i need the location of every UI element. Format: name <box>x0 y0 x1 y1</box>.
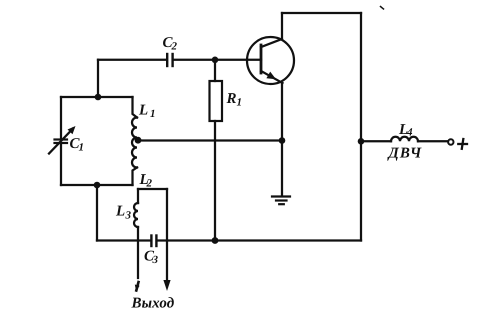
svg-text:2: 2 <box>171 41 178 53</box>
node: tank bottom junction dot <box>94 182 101 189</box>
node: base junction dot <box>212 57 219 64</box>
wire: L4 right lead <box>418 140 448 142</box>
capacitor C1 (variable): left wire upper segment <box>60 97 62 139</box>
svg-text:Выход: Выход <box>131 296 175 312</box>
wire: collector riser <box>281 13 283 39</box>
right output arrowhead <box>163 280 170 291</box>
capacitor C1: left wire lower segment <box>60 144 62 185</box>
transistor VT1 circle <box>247 37 294 84</box>
svg-text:L: L <box>115 204 125 220</box>
wire: emitter down to ground <box>281 83 283 196</box>
svg-text:1: 1 <box>237 97 243 109</box>
wire: R1 bottom lead <box>214 121 216 241</box>
tank loop: bottom wire <box>61 184 133 186</box>
label C2 <box>163 35 178 53</box>
label C1 <box>70 136 85 154</box>
label + supply terminal <box>458 139 467 149</box>
transistor VT1 base bar <box>260 45 263 73</box>
transistor VT1 emitter stroke <box>261 71 283 83</box>
wire: right output line <box>166 189 168 281</box>
capacitor C2 plates <box>166 54 168 66</box>
wire: C2 right lead to base <box>174 59 261 61</box>
ground symbol <box>272 197 290 205</box>
resistor R1 body <box>210 81 223 121</box>
capacitor C3 plates <box>150 236 152 247</box>
wire: C2 left lead <box>98 59 166 61</box>
wire: bottom rail left of C3 <box>97 239 150 241</box>
wire: riser from tank top to C2 lead <box>97 60 99 97</box>
label C3 <box>144 249 159 267</box>
svg-text:1: 1 <box>150 108 156 120</box>
svg-text:ДВЧ: ДВЧ <box>387 146 423 162</box>
wire: R1 top lead <box>214 60 216 81</box>
label L4 <box>398 122 413 139</box>
tank loop: top wire <box>61 96 133 98</box>
wire: right vertical rail <box>360 13 362 241</box>
wire: left riser to bottom rail <box>96 185 98 241</box>
svg-text:R: R <box>226 91 237 107</box>
inductor L4 winding <box>391 137 418 142</box>
coupling coil L2/L3: top wire <box>138 188 167 190</box>
inductor L3 winding <box>134 203 138 227</box>
wire: top supply rail <box>282 12 361 14</box>
inductor L3: upper lead <box>137 189 139 203</box>
node: L1 tap junction dot <box>135 137 142 144</box>
node: emitter junction dot <box>279 137 286 144</box>
svg-text:L: L <box>138 103 148 119</box>
node: L4 branch junction dot <box>358 138 365 145</box>
transistor VT1 collector stroke <box>261 39 282 47</box>
svg-text:3: 3 <box>152 254 159 266</box>
wire: L4 left lead <box>361 140 391 142</box>
inductor L1 winding <box>132 118 137 168</box>
wire: L3 lower lead / left output line <box>137 227 139 278</box>
label L3 <box>115 204 132 222</box>
wire: bottom rail right of C3 <box>157 239 361 241</box>
label R1 <box>226 91 243 109</box>
svg-text:2: 2 <box>146 178 153 190</box>
stray speck top right <box>381 7 384 10</box>
transistor VT1 emitter arrowhead <box>266 72 276 80</box>
wire: L1 tap to emitter <box>138 139 282 141</box>
svg-text:1: 1 <box>79 142 85 154</box>
label L2 <box>139 172 153 190</box>
label L1 <box>138 103 156 121</box>
svg-text:4: 4 <box>406 127 413 139</box>
capacitor C1 adjustment arrow <box>49 129 73 154</box>
inductor L1: bottom lead <box>133 168 138 186</box>
inductor L1: top lead <box>133 97 138 118</box>
left output arrow tip <box>136 282 138 291</box>
output terminal circle <box>448 139 453 144</box>
capacitor C1 plates <box>55 138 68 140</box>
node: R1 bottom junction dot <box>212 237 219 244</box>
svg-text:3: 3 <box>125 210 132 222</box>
node: tank top junction dot <box>95 94 102 101</box>
